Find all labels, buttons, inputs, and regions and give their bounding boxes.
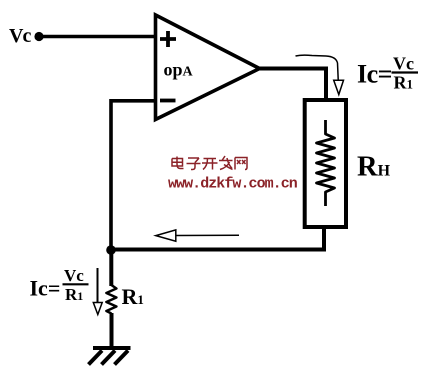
- wire R1 to ground: [110, 313, 114, 348]
- wire op-amp output to RH box top: [258, 69, 326, 102]
- 子: [187, 158, 201, 170]
- resistor R1 zigzag: [106, 285, 116, 314]
- current arrow (bottom wire, pointing left, open head): [156, 230, 239, 241]
- svg-text:Vc: Vc: [64, 266, 84, 285]
- svg-text:R1: R1: [122, 284, 144, 309]
- junction node: [106, 245, 116, 255]
- node Vc terminal dot: [34, 32, 43, 41]
- svg-text:Vc: Vc: [9, 25, 31, 47]
- node Vc label: [9, 25, 31, 47]
- label RH: [357, 152, 391, 183]
- svg-text:Ic=: Ic=: [357, 60, 392, 89]
- svg-text:Ic=: Ic=: [30, 276, 61, 301]
- resistor RH zigzag: [317, 120, 335, 206]
- wire Vc to op-amp + input: [39, 35, 156, 38]
- svg-text:R1: R1: [394, 73, 414, 93]
- svg-text:www.dzkfw.com.cn: www.dzkfw.com.cn: [168, 176, 298, 193]
- svg-text:RH: RH: [357, 152, 391, 183]
- current arrow Ic (top right, curved, open head): [296, 55, 344, 94]
- 电: [172, 157, 184, 169]
- 网: [235, 158, 247, 170]
- resistor RH box: [305, 100, 346, 227]
- op-amp U1 (opA): [156, 15, 260, 120]
- wire op-amp - input to junction: [111, 101, 156, 249]
- 发: [219, 156, 233, 170]
- 开: [202, 159, 218, 170]
- ground: [89, 348, 131, 365]
- wire RH box bottom to junction (bottom return wire): [110, 226, 324, 250]
- svg-text:Vc: Vc: [393, 54, 414, 74]
- label Ic=Vc/R1 (bottom left): [30, 266, 89, 304]
- label R1 (beside resistor): [122, 284, 144, 309]
- svg-text:R1: R1: [65, 285, 83, 304]
- watermark www.dzkfw.com.cn: [168, 176, 298, 193]
- wire junction to R1: [109, 250, 113, 286]
- watermark 电子开发网 (drawn glyphs): [172, 156, 247, 170]
- current arrow Ic (down, beside R1, open head): [93, 268, 102, 315]
- label Ic=Vc/R1 (top right): [357, 54, 418, 93]
